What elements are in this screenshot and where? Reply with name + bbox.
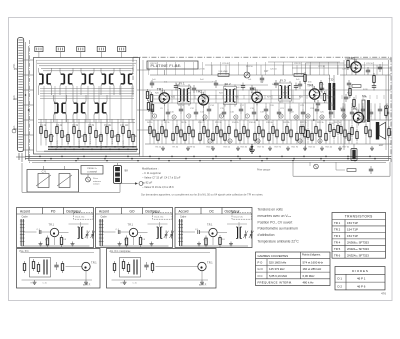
svg-text:C25 10: C25 10 <box>270 69 278 71</box>
svg-text:C2 3k: C2 3k <box>48 136 55 138</box>
transistor TR6 <box>351 107 364 126</box>
svg-text:VOLUME: VOLUME <box>218 71 228 73</box>
svg-text:– C 11 supprimé: – C 11 supprimé <box>142 171 161 175</box>
potentiometer P1 <box>244 72 250 78</box>
jack prise casque <box>257 164 318 171</box>
svg-text:B.2 4.7k: B.2 4.7k <box>68 135 70 144</box>
test point 8 <box>265 115 269 119</box>
svg-text:520 1605 kHz: 520 1605 kHz <box>269 261 287 265</box>
test point 1 <box>153 114 157 118</box>
svg-text:R22 1k: R22 1k <box>300 122 308 124</box>
wire TR5 branch <box>345 59 391 62</box>
svg-text:H.P: H.P <box>379 143 384 147</box>
IF coil L3 <box>82 72 94 85</box>
panel Accord PO Oscillateur <box>17 208 96 248</box>
table diodes <box>335 267 385 290</box>
svg-text:R27 6k: R27 6k <box>343 146 351 148</box>
svg-text:Prise: Prise <box>93 177 99 180</box>
IF coil L8 <box>95 101 107 114</box>
svg-text:R25 4k: R25 4k <box>326 146 334 148</box>
svg-text:C9 10k: C9 10k <box>104 125 112 127</box>
ground <box>161 146 165 150</box>
transistor TR4 <box>307 84 320 103</box>
resistor group FI band <box>149 120 371 144</box>
panel Accord OC Oscillateur <box>175 208 254 248</box>
svg-text:GAMMES COUVERTES: GAMMES COUVERTES <box>258 254 289 258</box>
test point 4 <box>203 115 207 119</box>
selector button S5 <box>118 46 126 57</box>
svg-text:C.V.: C.V. <box>42 169 47 173</box>
label group FI <box>147 63 374 148</box>
transistor TR1 <box>157 88 170 107</box>
test point 9 <box>279 114 283 118</box>
switch Int <box>118 182 144 186</box>
transistor TR2 <box>196 89 209 108</box>
svg-text:R10 7k: R10 7k <box>198 122 206 124</box>
notes block modifications <box>142 167 181 189</box>
svg-text:– Valeur C7 15 pF. C4 17 à 52: – Valeur C7 15 pF. C4 17 à 52 pF <box>142 176 181 180</box>
svg-text:D 2: D 2 <box>338 285 343 289</box>
resistor group tuner <box>40 119 134 146</box>
svg-text:TR 6: TR 6 <box>334 253 341 257</box>
svg-text:Prise casque: Prise casque <box>257 169 271 172</box>
svg-text:C12 13k: C12 13k <box>128 136 137 138</box>
svg-text:C8 9k: C8 9k <box>96 136 103 138</box>
svg-text:Position PO., CV ouvert: Position PO., CV ouvert <box>258 220 293 224</box>
transistor TR3 <box>250 87 263 106</box>
note tensions en volts <box>258 208 300 244</box>
IF coil L7 <box>74 101 86 114</box>
svg-text:FRÉQUENCE INTERM.: FRÉQUENCE INTERM. <box>258 280 293 285</box>
svg-text:Accord: Accord <box>179 209 189 213</box>
wire FI rail B <box>145 143 391 145</box>
svg-text:C26 20: C26 20 <box>294 63 302 65</box>
svg-text:C22 30: C22 30 <box>198 69 206 71</box>
battery 9V <box>114 163 129 184</box>
driver transformer T.D <box>328 75 335 118</box>
svg-text:R15 3k: R15 3k <box>241 146 249 148</box>
wire FI rail A <box>145 119 391 121</box>
svg-text:D I O D E S: D I O D E S <box>352 269 368 273</box>
wire tuner verticals <box>39 68 135 122</box>
svg-text:PRISE 2e: PRISE 2e <box>87 168 96 170</box>
svg-text:TR 5: TR 5 <box>334 247 341 251</box>
IF coil L1 <box>39 72 51 85</box>
platine FI-BF label box <box>147 61 198 69</box>
ground <box>268 146 272 150</box>
IF coil L2 <box>61 72 73 85</box>
wire top rail FI <box>150 70 391 75</box>
wire FI verticals <box>152 104 375 121</box>
svg-text:T.R.1: T.R.1 <box>91 262 97 265</box>
svg-text:154 T1P: 154 T1P <box>347 234 358 238</box>
test point 5 <box>219 114 223 118</box>
svg-text:Accord: Accord <box>99 209 109 213</box>
svg-text:C6 7k: C6 7k <box>80 136 87 138</box>
svg-text:C27: C27 <box>264 70 269 73</box>
antenna rod (cadre) <box>12 38 30 164</box>
svg-text:T.R.1: T.R.1 <box>207 262 213 265</box>
terminal +9V <box>385 105 389 109</box>
svg-text:R21 9k: R21 9k <box>292 146 300 148</box>
ground <box>370 146 374 150</box>
selector button S2 <box>56 46 64 57</box>
svg-text:R14 2k: R14 2k <box>232 122 240 124</box>
svg-text:GO: GO <box>130 209 135 213</box>
test point 3 <box>187 114 191 118</box>
ground <box>320 146 324 150</box>
svg-text:R18 6k: R18 6k <box>266 122 274 124</box>
svg-text:574 et 1600 kHz: 574 et 1600 kHz <box>303 261 324 265</box>
wire FI vertical stubs <box>146 62 388 103</box>
svg-text:D 1: D 1 <box>338 277 343 281</box>
svg-text:R5 2k: R5 2k <box>156 146 162 148</box>
svg-text:ou 82 pF: ou 82 pF <box>142 180 153 184</box>
svg-text:C21 20: C21 20 <box>174 66 182 68</box>
svg-text:R24 3k: R24 3k <box>317 122 325 124</box>
test point 13 <box>342 114 346 118</box>
svg-text:C7 8k: C7 8k <box>88 125 95 127</box>
table transistors <box>332 213 386 259</box>
IF transformer F.I.3 <box>279 79 292 104</box>
wire bottom right tail <box>293 162 390 176</box>
label group tuner <box>40 125 137 148</box>
aux box B (Ant OC incorporée) <box>107 249 217 289</box>
IF transformer F.I.2 <box>224 82 237 107</box>
ground <box>236 146 240 150</box>
capacitor group near TR5 <box>347 58 382 85</box>
svg-text:Tensions en volts: Tensions en volts <box>258 208 284 212</box>
svg-text:C20 10: C20 10 <box>150 63 158 65</box>
IF transformer F.I.1 <box>178 82 191 107</box>
svg-text:TR 3: TR 3 <box>334 234 341 238</box>
table gammes couvertes <box>256 252 331 286</box>
ground <box>249 146 253 150</box>
svg-text:GO: GO <box>14 98 18 101</box>
svg-text:Ant. O.C. incorporée: Ant. O.C. incorporée <box>110 250 132 253</box>
svg-text:R6 3k: R6 3k <box>164 122 170 124</box>
wire tuner mid bus <box>38 120 135 123</box>
svg-text:R19 7k: R19 7k <box>275 146 283 148</box>
svg-text:B.4 4.7k: B.4 4.7k <box>90 135 92 144</box>
test point 12 <box>320 115 324 119</box>
svg-text:mesurées avec un Vtvm: mesurées avec un Vtvm <box>258 214 292 218</box>
svg-text:46 P 1: 46 P 1 <box>357 277 366 281</box>
antenna jack <box>86 177 102 186</box>
svg-text:153 T1P: 153 T1P <box>347 221 358 225</box>
svg-text:5,85 6,19 MHz: 5,85 6,19 MHz <box>269 274 288 278</box>
svg-text:R17 5k: R17 5k <box>258 146 266 148</box>
svg-text:480 k Hz: 480 k Hz <box>303 281 315 285</box>
wire tuner bottom bus <box>44 146 138 151</box>
test point 6 <box>234 115 238 119</box>
IF coil L5 <box>121 72 133 85</box>
panel Accord GO Oscillateur <box>96 208 175 248</box>
svg-text:C5 6k: C5 6k <box>72 125 79 127</box>
wire main bottom bus <box>25 156 391 163</box>
box prise 2e combiné <box>81 166 103 175</box>
capacitor group TR4-TD <box>298 72 326 108</box>
tuning gang box C.V <box>27 166 79 192</box>
svg-text:2N321ou SFT323: 2N321ou SFT323 <box>347 247 369 251</box>
svg-text:Accord: Accord <box>20 209 30 213</box>
svg-text:TR4: TR4 <box>307 84 314 88</box>
svg-text:R9 6k: R9 6k <box>190 146 196 148</box>
svg-text:C11 12k: C11 12k <box>120 125 129 127</box>
platine FI-BF dash boundary <box>133 57 391 162</box>
wire antenna feeders <box>23 42 34 160</box>
wire below-block links <box>22 163 120 192</box>
svg-text:R4 1k: R4 1k <box>147 122 153 124</box>
IF coil L4 <box>102 72 114 85</box>
wire tuner-FI connectors <box>137 58 150 158</box>
svg-text:voiture: voiture <box>93 183 100 186</box>
wire FI mid rail <box>150 89 391 91</box>
svg-text:Pos. P.O.: Pos. P.O. <box>20 251 30 253</box>
test point 7 <box>245 114 249 118</box>
svg-text:145 373 kHz: 145 373 kHz <box>269 267 285 271</box>
resistor tail R30 <box>347 169 356 172</box>
svg-text:R7 4k: R7 4k <box>173 146 179 148</box>
svg-text:C3 4k: C3 4k <box>56 125 63 127</box>
svg-text:TRANSISTORS: TRANSISTORS <box>345 215 373 219</box>
resistor group left of TR1 <box>146 89 153 114</box>
svg-text:C28 40: C28 40 <box>342 69 350 71</box>
svg-text:OC: OC <box>14 128 18 131</box>
svg-text:Potentiomètre au maximum: Potentiomètre au maximum <box>258 227 299 231</box>
wire right edge column <box>385 60 390 160</box>
svg-text:TR 4: TR 4 <box>334 240 341 244</box>
test point 11 <box>306 114 310 118</box>
IF coil L6 <box>54 101 66 114</box>
svg-text:476: 476 <box>381 292 386 296</box>
svg-text:R20 8k: R20 8k <box>283 122 291 124</box>
svg-text:C1 2k: C1 2k <box>40 125 47 127</box>
svg-text:PO: PO <box>51 209 56 213</box>
resistor group below TD <box>302 120 358 144</box>
svg-text:P O: P O <box>258 261 264 265</box>
svg-text:F.I.3: F.I.3 <box>280 79 286 83</box>
svg-text:R23 2k: R23 2k <box>309 146 317 148</box>
svg-text:O C: O C <box>258 274 263 278</box>
svg-text:TR 1: TR 1 <box>334 221 341 225</box>
svg-text:46 P 6: 46 P 6 <box>357 285 366 289</box>
svg-text:Points d'alignem.: Points d'alignem. <box>302 254 321 257</box>
svg-text:154 T1P: 154 T1P <box>347 228 358 232</box>
tuner block outline <box>34 58 140 155</box>
ground main big <box>249 144 255 153</box>
output transformer T.S <box>362 94 370 122</box>
svg-text:R8 5k: R8 5k <box>181 122 187 124</box>
svg-text:au R.F.: au R.F. <box>199 284 207 287</box>
capacitor C27 <box>260 70 269 83</box>
svg-text:TR5: TR5 <box>349 57 356 61</box>
ground <box>286 146 290 150</box>
svg-text:d'attribution: d'attribution <box>258 233 275 237</box>
svg-text:6,06 MHz: 6,06 MHz <box>303 274 316 278</box>
battery right 9V <box>351 144 357 161</box>
wire FI extra rails <box>150 62 391 103</box>
svg-text:– Valeur R 19 de 3,9 à 18 K: – Valeur R 19 de 3,9 à 18 K <box>142 185 174 189</box>
svg-text:Modifications :: Modifications : <box>142 167 159 171</box>
svg-text:C23 40: C23 40 <box>222 63 230 65</box>
ground <box>338 146 342 150</box>
wire output stage boundary <box>306 60 345 150</box>
svg-text:R12 9k: R12 9k <box>215 122 223 124</box>
svg-text:C27 30: C27 30 <box>318 66 326 68</box>
svg-text:TR 2: TR 2 <box>334 228 341 232</box>
svg-text:G O: G O <box>258 267 264 271</box>
svg-text:TR1: TR1 <box>157 88 164 92</box>
svg-text:antenne: antenne <box>93 180 102 183</box>
svg-text:COMBINÉ: COMBINÉ <box>87 171 98 174</box>
svg-text:OC: OC <box>209 209 214 213</box>
speaker HP <box>376 122 386 147</box>
capacitor tail C40 <box>369 166 373 174</box>
aux box A (PO cadre) <box>17 249 101 289</box>
svg-text:2N366ou SFT353: 2N366ou SFT353 <box>347 240 369 244</box>
svg-text:TR3: TR3 <box>250 87 257 91</box>
selector button S4 <box>97 46 105 57</box>
ground <box>186 146 190 150</box>
ground <box>303 146 307 150</box>
test point row lower <box>208 139 322 143</box>
svg-text:C29 50: C29 50 <box>366 63 374 65</box>
svg-text:9V: 9V <box>125 169 129 173</box>
svg-text:Température ambiante 22°C: Température ambiante 22°C <box>258 240 300 244</box>
wire top bus <box>37 63 136 71</box>
svg-text:2N324ou SFT323: 2N324ou SFT323 <box>347 253 369 257</box>
resistor R23 volume <box>218 71 229 76</box>
capacitor group FI mid <box>149 80 389 120</box>
tuner block inner outline <box>36 60 137 151</box>
svg-text:R13 1k: R13 1k <box>224 146 232 148</box>
ground <box>211 146 215 150</box>
svg-text:au R.F.: au R.F. <box>83 284 91 287</box>
svg-text:160 et 286 kHz: 160 et 286 kHz <box>303 267 322 271</box>
svg-text:R16 4k: R16 4k <box>249 122 257 124</box>
svg-text:B.6 4.7k: B.6 4.7k <box>112 135 114 144</box>
test point 2 <box>172 115 176 119</box>
selector button S3 <box>77 46 85 57</box>
resistor R19 <box>294 74 304 77</box>
resistor group TR5-TR6 <box>344 85 368 109</box>
test point 10 <box>294 115 298 119</box>
transistor TR5 <box>349 57 362 76</box>
selector button S1 <box>35 46 43 57</box>
svg-text:Sur demandes apportées, un com: Sur demandes apportées, un complément su… <box>141 193 264 197</box>
svg-text:PO: PO <box>14 68 18 71</box>
